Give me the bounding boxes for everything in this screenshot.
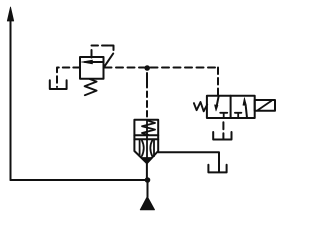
solenoid vent valve body [207,96,255,118]
pilot relief valve flow arrowhead [81,60,92,64]
pilot line: top junction down to main stage [146,73,148,120]
main-stage spring [142,121,155,136]
junction node (pilot line) [144,65,150,71]
solenoid actuator diagonal [258,101,272,110]
right position blocked port T [235,113,242,118]
left position blocked port T [220,113,227,118]
pilot relief vent loop diagonal [104,54,113,67]
wire: main-stage outlet to junction [146,163,148,180]
poppet seat cone [142,158,152,163]
pilot relief vent loop top (dashed) [92,45,111,47]
solenoid valve return spring [194,102,207,111]
pilot relief valve spring [85,79,97,95]
main-stage piston right wall [153,140,155,156]
main-stage upper divider line [134,134,158,136]
left position arrow shaft [217,96,219,105]
main-stage lower divider line [134,138,158,140]
tank symbol (main-stage return) [208,165,226,173]
main-stage piston left wall [139,140,141,156]
tank symbol (pilot relief drain) [50,80,67,89]
pilot relief valve body [80,57,104,79]
pump supply line (vertical riser) [10,19,12,180]
poppet seat bar [142,157,152,159]
tank symbol (solenoid valve drain) [213,132,231,140]
flow direction arrowhead [7,7,13,21]
hydraulic pressure source triangle [140,197,154,210]
wire: junction to source triangle [147,180,149,197]
right position arrow shaft [246,107,247,117]
pilot line: corner down to solenoid valve [217,68,219,96]
wire: main-stage tank outlet [158,152,219,172]
pilot relief vent loop corner [110,46,114,51]
pilot relief vent loop stub [91,50,93,58]
pilot line: main horizontal dashed [105,67,219,69]
pilot relief drain line (dashed) [57,68,80,88]
main-stage right arc [150,141,152,157]
junction node (bottom) [145,177,151,183]
main-stage left arc [142,141,144,157]
pilot relief valve flow arrow shaft [85,61,104,63]
main-stage center flow line [146,120,148,158]
solenoid vent valve center divider [230,96,232,118]
wire: bottom horizontal pressure line [11,179,148,181]
main-stage valve body (cartridge poppet) [134,120,158,163]
right position arrowhead (up) [243,98,247,106]
solenoid actuator box [255,100,275,111]
drain stub below solenoid valve (dashed) [222,122,224,139]
left position arrowhead (down) [215,105,219,111]
